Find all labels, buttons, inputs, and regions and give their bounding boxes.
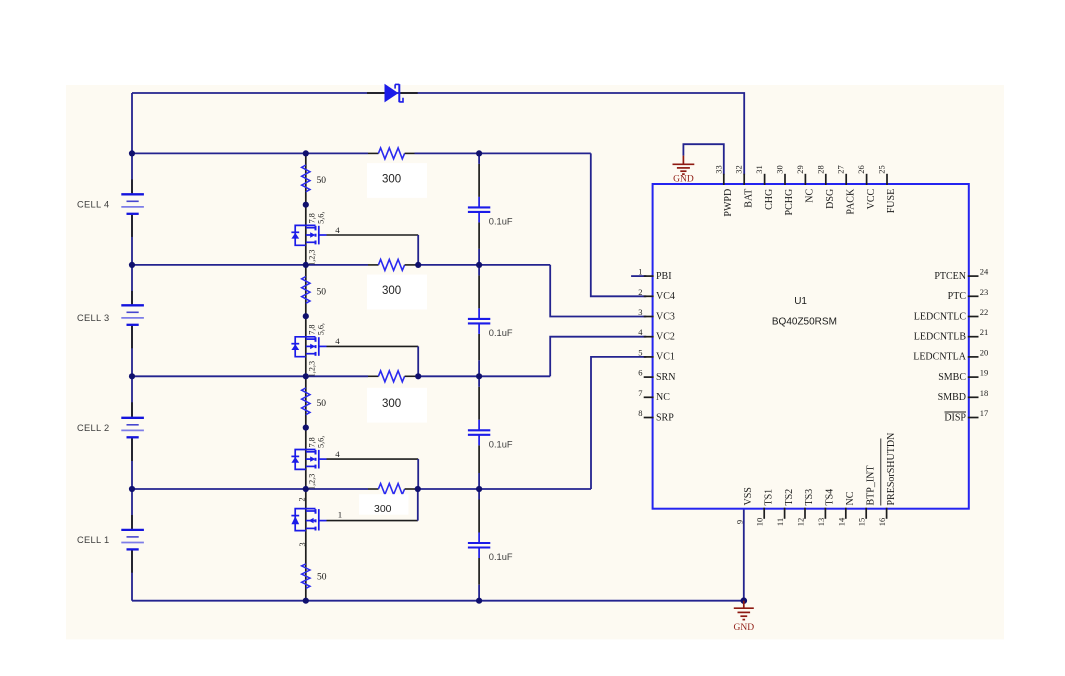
svg-text:9: 9 [734, 520, 744, 524]
pin 25 FUSE [886, 174, 888, 185]
svg-text:CELL 4: CELL 4 [77, 200, 109, 210]
node: cap chain / bottom rail [476, 598, 482, 604]
svg-text:NC: NC [656, 392, 670, 403]
wire: bottom rail [132, 600, 744, 602]
node: battery rail / row2 [129, 373, 135, 379]
wire: left battery rail [131, 93, 133, 193]
capacitor C3 0.1uF [468, 429, 490, 431]
wire: top rail to BAT pin [132, 93, 744, 175]
transistor Q3 (dual FET) [295, 450, 315, 470]
svg-text:50: 50 [317, 287, 327, 297]
wire: row0 net (top of cell 4) [132, 152, 368, 154]
pin 6 SRN [644, 376, 654, 378]
svg-text:28: 28 [815, 165, 825, 174]
wire: VSS pin 9 to bottom rail [743, 509, 745, 601]
pin 17 DISP [968, 417, 979, 419]
svg-text:4: 4 [335, 225, 340, 235]
battery CELL 3 [121, 304, 144, 306]
pin 15 BTP_INT [865, 508, 867, 519]
svg-text:3: 3 [298, 542, 307, 546]
resistor 300 (row 2) [368, 375, 379, 377]
svg-text:PTCEN: PTCEN [934, 271, 966, 282]
svg-text:300: 300 [374, 503, 392, 515]
ground symbol (top, near PWPD) [682, 156, 684, 165]
svg-text:2: 2 [297, 497, 306, 501]
pin 27 PACK [845, 174, 847, 185]
svg-text:32: 32 [734, 165, 744, 174]
transistor Q4 [295, 509, 315, 531]
svg-text:SMBD: SMBD [938, 392, 966, 403]
svg-text:VC3: VC3 [656, 311, 675, 322]
svg-text:4: 4 [335, 336, 340, 346]
capacitor C2 0.1uF [468, 318, 490, 320]
node: cap chain / row0 [476, 150, 482, 156]
svg-text:5,6,: 5,6, [317, 323, 326, 335]
pin 16 PRESorSHUTDN [886, 508, 888, 519]
resistor 50 (stage 2) [302, 277, 310, 304]
node: cap chain / row3 [476, 486, 482, 492]
wire: row2 net (cell3/cell2 junction) [132, 375, 368, 377]
svg-text:1,2,3: 1,2,3 [308, 361, 317, 377]
svg-text:0.1uF: 0.1uF [489, 328, 513, 338]
svg-text:BQ40Z50RSM: BQ40Z50RSM [772, 316, 837, 327]
resistor 50 (stage 1) [302, 165, 310, 192]
svg-text:NC: NC [805, 188, 816, 202]
svg-text:VC2: VC2 [656, 332, 675, 343]
node: gate tap / row3 [415, 486, 421, 492]
svg-text:15: 15 [857, 518, 867, 527]
resistor 300 (row 3) [368, 488, 379, 490]
svg-text:5,6,: 5,6, [317, 436, 326, 448]
svg-text:PACK: PACK [845, 188, 856, 215]
pin 29 NC [804, 174, 806, 185]
resistor 50 (stage 4) [302, 564, 310, 589]
svg-text:10: 10 [755, 518, 765, 527]
node: cap chain / row1 [476, 262, 482, 268]
wire: row1 drop to VC3 pin 3 [550, 265, 646, 317]
svg-text:16: 16 [877, 518, 887, 527]
wire: gate drop [327, 345, 419, 347]
wire: PBI pin 1 stub [631, 275, 646, 277]
svg-text:PBI: PBI [656, 271, 672, 282]
svg-text:30: 30 [775, 165, 785, 174]
svg-text:13: 13 [816, 518, 826, 527]
svg-text:50: 50 [317, 176, 327, 186]
node: chain junction (stage 1) [303, 202, 309, 208]
wire: battery lead segments [131, 179, 133, 193]
svg-text:50: 50 [317, 399, 327, 409]
svg-text:33: 33 [713, 165, 723, 174]
pin 32 BAT [743, 174, 745, 185]
svg-text:7,8: 7,8 [308, 325, 317, 335]
pin 30 PCHG [784, 174, 786, 185]
svg-text:29: 29 [795, 165, 805, 174]
svg-text:11: 11 [775, 518, 785, 526]
svg-text:23: 23 [980, 287, 989, 297]
svg-text:5,6,: 5,6, [317, 212, 326, 224]
svg-text:CELL 2: CELL 2 [77, 423, 109, 433]
svg-text:19: 19 [980, 368, 989, 378]
svg-text:PTC: PTC [948, 291, 967, 302]
svg-text:PRESorSHUTDN: PRESorSHUTDN [886, 433, 897, 506]
svg-text:TS2: TS2 [784, 489, 795, 506]
ground symbol (bottom, VSS) [743, 601, 745, 609]
pin 13 TS4 [824, 508, 826, 519]
pin 23 PTC [968, 295, 979, 297]
node: balance chain / row0 [303, 150, 309, 156]
battery CELL 4 [121, 193, 144, 195]
node: battery rail / row1 [129, 262, 135, 268]
svg-text:6: 6 [638, 368, 642, 378]
node: VSS / bottom rail [741, 597, 748, 604]
svg-text:17: 17 [980, 408, 989, 418]
svg-text:18: 18 [980, 388, 989, 398]
svg-text:7: 7 [638, 388, 642, 398]
svg-text:300: 300 [382, 398, 401, 410]
node: balance chain / row3 [303, 486, 309, 492]
IC U1 BQ40Z50RSM body [653, 184, 969, 509]
pin 7 NC [644, 396, 654, 398]
schematic page background [66, 85, 1004, 639]
svg-text:24: 24 [980, 267, 989, 277]
svg-text:0.1uF: 0.1uF [489, 440, 513, 450]
svg-text:BTP_INT: BTP_INT [865, 466, 876, 506]
svg-text:TS1: TS1 [763, 489, 774, 506]
svg-text:VC4: VC4 [656, 291, 675, 302]
wire: gate rise of Q4 [327, 520, 418, 522]
svg-text:0.1uF: 0.1uF [489, 552, 513, 562]
svg-text:50: 50 [317, 573, 327, 583]
battery CELL 1 [121, 529, 144, 531]
node: balance chain / row1 [303, 262, 309, 268]
svg-text:CELL 3: CELL 3 [77, 313, 109, 323]
node: battery rail / row0 [129, 150, 135, 156]
svg-text:22: 22 [980, 307, 989, 317]
svg-text:LEDCNTLC: LEDCNTLC [914, 311, 967, 322]
svg-text:FUSE: FUSE [886, 189, 897, 213]
svg-text:31: 31 [754, 165, 764, 174]
pin 18 SMBD [968, 396, 979, 398]
wire: row2 rise to VC2 pin 4 [550, 337, 646, 377]
svg-text:TS4: TS4 [825, 489, 836, 506]
pin 24 PTCEN [968, 275, 979, 277]
svg-text:7,8: 7,8 [308, 437, 317, 447]
svg-text:PWPD: PWPD [723, 189, 734, 217]
svg-text:PCHG: PCHG [784, 189, 795, 216]
svg-text:LEDCNTLA: LEDCNTLA [913, 352, 967, 363]
svg-text:25: 25 [877, 165, 887, 174]
capacitor C4 0.1uF [468, 542, 490, 544]
node: balance chain / bottom rail [303, 598, 309, 604]
svg-text:SMBC: SMBC [938, 372, 966, 383]
resistor 300 (row 1) [368, 264, 379, 266]
svg-text:CELL 1: CELL 1 [77, 535, 109, 545]
svg-text:7,8: 7,8 [308, 213, 317, 223]
svg-text:27: 27 [836, 165, 846, 174]
svg-text:20: 20 [980, 347, 989, 357]
resistor 50 (stage 3) [302, 388, 310, 415]
svg-text:LEDCNTLB: LEDCNTLB [914, 332, 967, 343]
wire: row0 drop to VC4 pin 2 [591, 153, 647, 296]
svg-text:2: 2 [638, 287, 642, 297]
svg-text:CHG: CHG [764, 189, 775, 210]
pin 4 VC2 [644, 336, 654, 338]
pin 22 LEDCNTLC [968, 316, 979, 318]
capacitor C1 0.1uF [468, 206, 490, 208]
node: gate tap / row1 [415, 262, 421, 268]
svg-text:14: 14 [836, 517, 846, 526]
wire: PWPD pin 33 to GND [683, 144, 723, 174]
svg-text:300: 300 [382, 285, 401, 297]
svg-text:3: 3 [638, 307, 642, 317]
wire: capacitor chain leads [478, 164, 480, 197]
wire: gate drop [327, 234, 419, 236]
svg-text:TS3: TS3 [804, 489, 815, 506]
pin 8 SRP [644, 417, 654, 419]
pin 31 CHG [764, 174, 766, 185]
svg-text:4: 4 [335, 449, 340, 459]
svg-text:GND: GND [734, 623, 755, 633]
svg-text:5: 5 [638, 347, 642, 357]
wire: row1 net (cell4/cell3 junction) [132, 264, 368, 266]
svg-text:VC1: VC1 [656, 352, 675, 363]
pin 3 VC3 [644, 316, 654, 318]
pin 1 PBI [644, 275, 654, 277]
transistor Q2 (dual FET) [295, 337, 315, 357]
pin 21 LEDCNTLB [968, 336, 979, 338]
pin 11 TS2 [784, 508, 786, 519]
wire: row3 rise to VC1 pin 5 [591, 357, 646, 489]
node: gate tap / row2 [415, 373, 421, 379]
svg-text:DSG: DSG [825, 189, 836, 209]
pin 2 VC4 [644, 295, 654, 297]
node: cap chain / row2 [476, 373, 482, 379]
node: balance chain / row2 [303, 373, 309, 379]
svg-text:1: 1 [638, 267, 642, 277]
node: chain junction (stage 2) [303, 313, 309, 319]
pin 20 LEDCNTLA [968, 356, 979, 358]
pin 19 SMBC [968, 376, 979, 378]
resistor 300 (row 0) [368, 152, 379, 154]
svg-text:VSS: VSS [743, 487, 754, 505]
svg-text:300: 300 [382, 173, 401, 185]
svg-text:0.1uF: 0.1uF [489, 217, 513, 227]
svg-text:8: 8 [638, 408, 642, 418]
pin 26 VCC [866, 174, 868, 185]
svg-text:1,2,3: 1,2,3 [308, 250, 317, 266]
svg-text:12: 12 [796, 518, 806, 527]
svg-text:VCC: VCC [866, 188, 877, 209]
pin 5 VC1 [644, 356, 654, 358]
svg-text:SRN: SRN [656, 372, 675, 383]
svg-text:21: 21 [980, 327, 989, 337]
svg-text:SRP: SRP [656, 412, 674, 423]
svg-text:26: 26 [856, 165, 866, 174]
diode D1 (schottky) [367, 92, 385, 94]
pin 12 TS3 [804, 508, 806, 519]
svg-text:U1: U1 [794, 296, 807, 307]
node: battery rail / row3 [129, 486, 135, 492]
wire: gate drop [327, 458, 419, 460]
svg-text:1,2,3: 1,2,3 [308, 474, 317, 490]
pin 33 PWPD [723, 174, 725, 185]
pin 14 NC [845, 508, 847, 519]
pin 28 DSG [825, 174, 827, 185]
node: chain junction (stage 3) [303, 425, 309, 431]
svg-text:NC: NC [845, 491, 856, 505]
wire: row3 net (cell2/cell1 junction) [132, 488, 368, 490]
wire: cell-balance chain [305, 153, 307, 600]
svg-text:BAT: BAT [743, 189, 754, 208]
svg-text:1: 1 [338, 510, 342, 520]
transistor Q1 (dual FET) [295, 225, 315, 245]
battery CELL 2 [121, 417, 144, 419]
pin 10 TS1 [763, 508, 765, 519]
svg-text:DISP: DISP [944, 412, 966, 423]
